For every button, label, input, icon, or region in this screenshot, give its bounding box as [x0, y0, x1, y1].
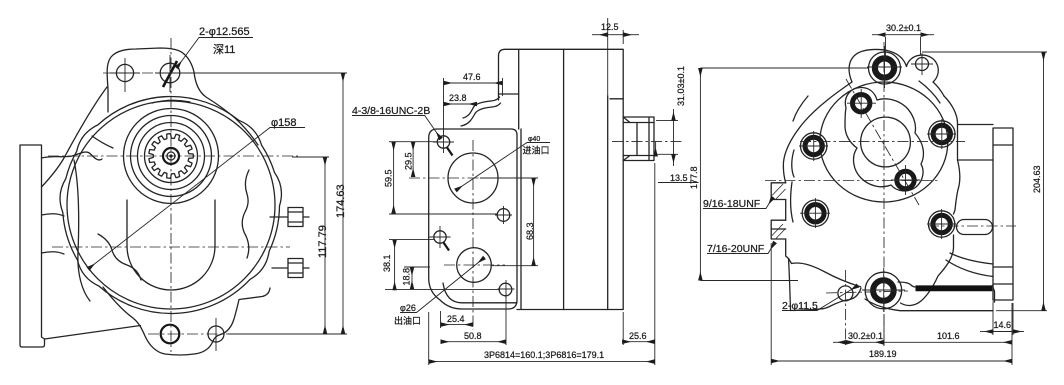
centerline horizontal lower bore [52, 246, 290, 248]
dim 14.6 [993, 303, 1013, 335]
dim 18.8 [385, 267, 500, 289]
body vertical joint [518, 49, 520, 129]
centerline bottom holes [148, 333, 230, 335]
port boss tab 9/16 [771, 183, 786, 200]
central bore [861, 117, 911, 167]
svg-text:25.4: 25.4 [447, 314, 465, 324]
dim 31.03+-0.1 [656, 121, 678, 155]
dim 30.2 bottom [883, 314, 885, 346]
svg-text:174.63: 174.63 [335, 184, 347, 218]
svg-text:204.63: 204.63 [1032, 165, 1042, 193]
svg-text:50.8: 50.8 [464, 331, 482, 341]
spline shaft gear [149, 134, 193, 179]
svg-text:101.6: 101.6 [937, 331, 960, 341]
small hole mid [497, 209, 510, 222]
dim 189.19 [771, 243, 1012, 365]
lower bore U channel [127, 200, 215, 290]
inlet port centerline [409, 177, 508, 179]
lower axis centerline [765, 180, 940, 182]
svg-text:12.5: 12.5 [601, 22, 619, 32]
centerline ear holes [103, 72, 232, 74]
diagonal centerline A-D [846, 79, 919, 205]
bolt C [927, 119, 956, 149]
dim 68.3 [480, 178, 538, 266]
dim 50.8 [505, 296, 507, 345]
stud bolt upper right [270, 208, 309, 227]
stud bolt lower right [272, 259, 309, 278]
svg-text:2-φ12.565: 2-φ12.565 [199, 26, 250, 38]
body bottom edge [865, 299, 993, 311]
dim 117.79 [292, 156, 329, 158]
dim 25.4 [440, 311, 442, 328]
mounting plate [429, 129, 517, 309]
inlet port phi40 [448, 153, 498, 203]
svg-text:31.03±0.1: 31.03±0.1 [676, 66, 686, 106]
bolt hole top-left (UNC) [437, 136, 449, 148]
dim 30.2 top [886, 37, 921, 58]
tube-body intersection curve [74, 160, 90, 301]
svg-text:14.6: 14.6 [994, 320, 1012, 330]
bore boss contour [845, 87, 923, 190]
dim 174.63 [185, 72, 347, 74]
svg-text:出油口: 出油口 [394, 315, 421, 326]
boss centerline [612, 141, 683, 143]
body outer casting outline with lobes [60, 97, 281, 314]
bolt B [799, 131, 828, 161]
left inlet tube flange [20, 87, 141, 347]
bolt F [927, 209, 956, 239]
dim 23.8 [444, 103, 478, 105]
dim 3P6814=160.1;3P6816=179.1 [428, 312, 430, 365]
ear hole right (2-phi12.565, slashed) [160, 63, 180, 83]
bearing bore rings [145, 130, 198, 183]
top ear [107, 48, 258, 145]
ear hole left [116, 64, 133, 81]
inner contour arcs [789, 81, 941, 287]
bolt E [800, 198, 830, 228]
centerline vertical [170, 38, 172, 352]
body front joint line [520, 129, 522, 309]
svg-text:117.79: 117.79 [317, 225, 329, 258]
svg-text:59.5: 59.5 [384, 169, 394, 187]
outer blob contour [820, 82, 948, 202]
svg-text:47.6: 47.6 [463, 72, 481, 82]
port boss block right [623, 117, 654, 161]
hole 2-phi11.5 [838, 286, 853, 301]
cover inner step [610, 98, 623, 100]
body block outline [499, 49, 624, 309]
bottom pilot ring [865, 272, 902, 309]
centerline horizontal top bore [48, 155, 298, 157]
svg-text:23.8: 23.8 [449, 93, 467, 103]
casting wavy line right [242, 170, 249, 258]
svg-text:189.19: 189.19 [869, 349, 897, 359]
dim 177.8 (right view height from top bolt axis) [700, 68, 868, 281]
svg-text:φ26: φ26 [400, 303, 416, 313]
dim 47.6 [444, 78, 503, 133]
dim 29.5 [389, 141, 437, 143]
dim 13.5 [655, 142, 657, 157]
svg-text:进油口: 进油口 [523, 145, 550, 156]
svg-text:177.8: 177.8 [689, 166, 699, 189]
rear cover joint [607, 96, 609, 310]
outlet port phi26 [457, 248, 492, 283]
port boss tab 7/16 [771, 220, 786, 239]
dim 38.1 [389, 239, 434, 241]
svg-text:30.2±0.1: 30.2±0.1 [886, 23, 921, 33]
svg-text:13.5: 13.5 [670, 173, 688, 183]
slot centerline [928, 225, 1016, 227]
bottom foot [103, 287, 270, 355]
bolt A [847, 89, 876, 118]
vertical centerline [883, 42, 885, 345]
bore centerline [800, 141, 965, 143]
bolt D [891, 165, 920, 195]
body main machined circle [67, 101, 275, 309]
spline hub [163, 148, 179, 164]
svg-text:φ40: φ40 [528, 136, 540, 143]
dim 25.6 [623, 163, 655, 365]
rear flange plate [993, 128, 1013, 300]
flange neck lines [946, 125, 993, 277]
dim 12.5 [608, 18, 624, 96]
svg-text:29.5: 29.5 [404, 152, 414, 170]
dim 101.6 [884, 341, 1012, 343]
stadium slot [957, 220, 993, 235]
svg-text:深11: 深11 [213, 43, 235, 56]
svg-text:25.6: 25.6 [629, 331, 647, 341]
foot hole right [208, 326, 224, 342]
small hole top right [916, 58, 929, 71]
svg-text:3P6814=160.1;3P6816=179.1: 3P6814=160.1;3P6816=179.1 [484, 350, 604, 360]
bolt hole mid-left (UNC) [434, 231, 446, 243]
svg-text:30.2±0.1: 30.2±0.1 [848, 331, 883, 341]
foot hole left (bold) [161, 325, 180, 344]
dim 204.63 [922, 52, 1047, 311]
svg-text:38.1: 38.1 [382, 254, 392, 272]
casting wavy line lower-left [98, 234, 141, 280]
dim 59.5 [389, 213, 497, 215]
body outline [783, 82, 959, 311]
svg-text:18.8: 18.8 [402, 268, 412, 286]
ring centerline [826, 291, 908, 293]
plate port centerline vertical [472, 140, 474, 330]
outlet port centerline [444, 264, 505, 266]
top ear boss [849, 49, 944, 96]
hole 11.5 centerline [845, 270, 847, 348]
body ear S-curves [461, 103, 501, 126]
svg-text:68.3: 68.3 [525, 222, 535, 240]
mounting slot section (black) [916, 285, 993, 291]
small hole bottom [499, 283, 512, 296]
plate bottom step [443, 283, 517, 303]
top mounting bolt ring [869, 52, 901, 84]
